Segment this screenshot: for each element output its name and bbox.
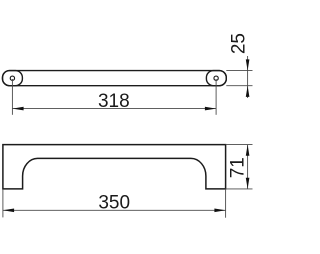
dimension line 318: [12, 108, 216, 110]
extension line from right hole center down: [215, 79, 217, 115]
arrow 318 right: [205, 107, 216, 111]
extension line front view left down: [2, 189, 4, 218]
dimension line 350: [3, 209, 226, 211]
svg-text:71: 71: [228, 157, 249, 178]
arrow 350 left: [3, 209, 14, 213]
right screw hole: [214, 76, 218, 80]
arrow 350 right: [214, 209, 225, 213]
dimension line 71 vertical: [247, 145, 249, 189]
extension line front bottom right: [226, 188, 253, 190]
extension line from left hole center down: [11, 79, 13, 115]
svg-text:318: 318: [98, 91, 130, 112]
extension line front view right down: [225, 189, 227, 218]
handle front view outline: [3, 145, 226, 189]
arrow 25 bottom (pointing up): [246, 86, 250, 97]
extension line front top right: [226, 144, 253, 146]
arrow 318 left: [12, 107, 23, 111]
left post cap top view: [3, 71, 23, 86]
arrow 71 bottom (pointing down): [246, 178, 250, 189]
handle bar top view outline: [3, 71, 227, 86]
extension line bar bottom right: [226, 85, 252, 87]
arrow 71 top (pointing up): [246, 145, 250, 156]
right post cap top view: [206, 71, 226, 86]
dimension line 25 vertical: [247, 56, 249, 98]
arrow 25 top (pointing down): [246, 59, 250, 70]
extension line bar top right: [226, 70, 252, 72]
svg-text:350: 350: [98, 192, 130, 213]
left screw hole: [10, 76, 14, 80]
svg-text:25: 25: [229, 33, 250, 54]
